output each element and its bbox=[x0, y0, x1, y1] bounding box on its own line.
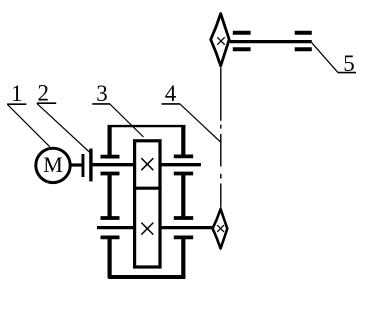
leader line 1 bbox=[8, 105, 50, 147]
bearing left-lower of shaft 5 bbox=[233, 47, 251, 51]
wire: output shaft to sprocket bbox=[160, 226, 212, 229]
housing right wall lower segment bbox=[181, 237, 185, 278]
bearing cap upper-left of output shaft bbox=[101, 216, 120, 220]
gear block rectangle bbox=[135, 141, 160, 267]
leader line 2 bbox=[37, 104, 91, 154]
label 2 bbox=[37, 81, 57, 106]
label 5 bbox=[338, 51, 356, 76]
svg-text:4: 4 bbox=[165, 81, 177, 106]
gear cross X upper bbox=[141, 158, 153, 170]
svg-text:3: 3 bbox=[96, 81, 108, 106]
bearing right-upper of shaft 5 bbox=[295, 31, 312, 35]
svg-text:M: M bbox=[43, 152, 63, 177]
wire: motor shaft to coupling bbox=[71, 163, 82, 166]
leader line 3 bbox=[110, 104, 144, 137]
wire: output shaft 5 bbox=[230, 40, 312, 43]
svg-text:1: 1 bbox=[11, 81, 23, 106]
housing right wall middle segment bbox=[181, 174, 185, 219]
label 3 bbox=[92, 81, 110, 106]
bearing cap lower-left of output shaft bbox=[101, 236, 120, 240]
svg-text:2: 2 bbox=[37, 81, 49, 106]
wire: output shaft left stub bbox=[97, 226, 134, 229]
wire: intermediate shaft right stub bbox=[160, 163, 201, 166]
bearing cap upper-left of input shaft bbox=[101, 155, 120, 159]
bearing cap lower-right of input shaft bbox=[174, 172, 193, 176]
chain line (dash-dot) bbox=[220, 68, 222, 208]
housing left wall middle segment bbox=[107, 174, 111, 219]
bearing left-upper of shaft 5 bbox=[233, 31, 251, 35]
housing right wall upper segment bbox=[181, 125, 185, 156]
housing left wall upper segment bbox=[107, 125, 111, 156]
bearing cap upper-right of output shaft bbox=[174, 216, 193, 220]
leader line 5 bbox=[312, 43, 338, 73]
gear cross X lower bbox=[141, 223, 153, 235]
gearbox housing bottom bbox=[108, 275, 185, 279]
wire: input shaft into gearbox bbox=[93, 163, 134, 166]
gear block divider bbox=[133, 187, 162, 190]
coupling half 2 bbox=[89, 149, 92, 182]
label 1 bbox=[7, 81, 26, 106]
bearing cap upper-right of input shaft bbox=[174, 155, 193, 159]
motor M bbox=[36, 148, 70, 182]
sprocket upper (driven) bbox=[211, 14, 230, 66]
bearing right-lower of shaft 5 bbox=[295, 47, 312, 51]
sprocket lower (driving) bbox=[213, 209, 228, 249]
housing left wall lower segment bbox=[107, 237, 111, 278]
leader line 4 bbox=[180, 104, 220, 142]
coupling half 1 bbox=[82, 154, 85, 177]
bearing cap lower-left of input shaft bbox=[101, 172, 120, 176]
bearing cap lower-right of output shaft bbox=[174, 236, 193, 240]
gearbox housing top bbox=[109, 125, 186, 127]
label 4 bbox=[162, 81, 181, 106]
